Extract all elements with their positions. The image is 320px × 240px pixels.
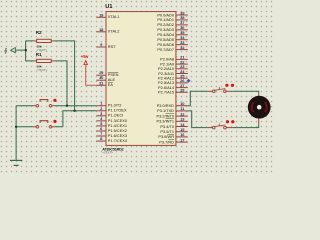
power terminal arrow (left input) bbox=[4, 48, 18, 54]
junction: R1 net at pin 1 wire bbox=[66, 105, 68, 107]
wire: P3.0 pin 10 up and right to switch SW1 / motor top bbox=[188, 91, 259, 105]
wire: P3.1 pin 11 down and right to switch SW2 / motor bottom bbox=[188, 111, 259, 128]
wire: R1 right lead down to P1.0 net bbox=[54, 61, 67, 106]
wire: terminal to R1/R2 split bbox=[18, 41, 34, 61]
U1 right pin numbers bbox=[180, 10, 185, 142]
wire: R2 right lead down to P1.1 net bbox=[54, 41, 74, 111]
junction: input node bbox=[25, 49, 27, 51]
svg-text:U1: U1 bbox=[105, 4, 113, 10]
U1 left pin stubs (19,18,9,29,30,31,1-8) bbox=[96, 15, 188, 142]
svg-text:R2: R2 bbox=[36, 30, 42, 35]
wire: left vertical to ground bbox=[15, 106, 17, 160]
junction: R2 net at pin 2 wire bbox=[73, 110, 75, 112]
ground bbox=[10, 160, 22, 165]
svg-text:P2.7/A15: P2.7/A15 bbox=[158, 90, 174, 95]
wire: +5v down to EA pin 31 bbox=[86, 65, 97, 86]
svg-text:P3.7/RD: P3.7/RD bbox=[159, 139, 174, 144]
microcontroller U1 (AT89C51RD2) bbox=[96, 4, 188, 155]
resistor R2 10k bbox=[34, 30, 55, 52]
switch SW1 bbox=[207, 84, 234, 93]
junction: B2 row at ground rail bbox=[15, 126, 17, 128]
wire: motor bottom lead bbox=[258, 119, 260, 125]
power terminal +5v (red) bbox=[81, 54, 89, 65]
U1 right pin names bbox=[156, 12, 174, 144]
motor M1 bbox=[248, 96, 271, 119]
U1 right pin stubs (39-32,21-28,10-17) bbox=[176, 14, 188, 16]
svg-text:+5v: +5v bbox=[81, 54, 89, 59]
resistor R1 10k bbox=[34, 52, 55, 72]
svg-text:XTAL1: XTAL1 bbox=[108, 14, 120, 19]
push button B2 bbox=[33, 120, 57, 128]
wire: P1.0 row (ground rail to pin 1 through B1) bbox=[16, 105, 96, 107]
svg-text:XTAL2: XTAL2 bbox=[108, 29, 120, 34]
svg-text:EA: EA bbox=[108, 82, 114, 87]
wire: P1.1 row (ground rail through B2, step up to pin 2) bbox=[16, 111, 96, 127]
push button B1 bbox=[33, 99, 57, 107]
U1 left pin numbers bbox=[99, 12, 104, 141]
U1 left pin names bbox=[108, 14, 128, 143]
svg-text:+5v: +5v bbox=[4, 48, 8, 54]
node marker (blue diamond) near P2.5 bbox=[187, 79, 191, 83]
switch SW2 bbox=[207, 120, 234, 129]
svg-text:<TEXT>: <TEXT> bbox=[37, 68, 48, 72]
wire: motor top lead bbox=[258, 94, 260, 97]
svg-text:P1.7/CEX4: P1.7/CEX4 bbox=[108, 138, 128, 143]
svg-text:RST: RST bbox=[108, 44, 116, 49]
svg-text:<TEXT>: <TEXT> bbox=[102, 151, 113, 155]
svg-text:P0.7/AD7: P0.7/AD7 bbox=[157, 47, 174, 52]
svg-text:R1: R1 bbox=[36, 52, 42, 57]
